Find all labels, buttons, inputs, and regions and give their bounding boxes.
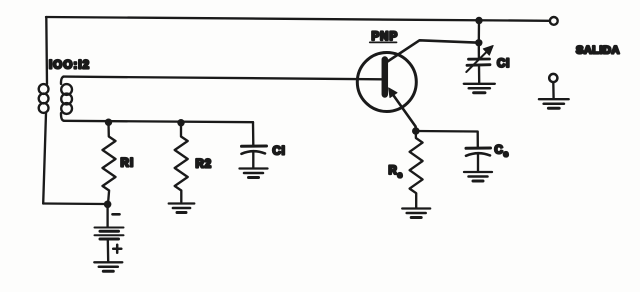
svg-text:CI: CI [273, 146, 286, 158]
transistor Q1 emitter [390, 91, 416, 132]
resistor R1 [103, 122, 116, 204]
variable capacitor C1 [469, 58, 490, 61]
transformer T1 secondary winding [61, 77, 64, 84]
svg-text:RI: RI [121, 158, 135, 170]
node battery top [104, 201, 112, 209]
wire emitter to Ce [416, 131, 478, 147]
svg-text:PNP: PNP [372, 31, 399, 43]
node collector junction [475, 39, 482, 46]
ground under variable C1 [464, 84, 495, 93]
svg-text:R2: R2 [196, 159, 212, 171]
capacitor C1 fixed [252, 122, 255, 145]
resistor R2 [175, 123, 188, 202]
svg-text:e: e [504, 149, 509, 159]
wire left vertical [45, 17, 48, 84]
wire secondary bottom bus [64, 121, 253, 122]
output terminal right lower [549, 74, 557, 82]
battery B1 [106, 204, 108, 226]
label plus [113, 247, 121, 250]
svg-text:IOO:I2: IOO:I2 [49, 60, 90, 72]
svg-text:e: e [398, 170, 403, 180]
svg-text:C: C [495, 145, 503, 157]
transistor Q1 collector [388, 40, 477, 61]
ground under Re [402, 209, 430, 218]
svg-text:R: R [389, 165, 398, 177]
svg-text:SALIDA: SALIDA [576, 45, 620, 57]
resistor Re [410, 131, 423, 208]
transistor Q1 PNP circle [357, 53, 416, 112]
capacitor Ce [466, 147, 491, 150]
ground under output terminal [539, 99, 569, 108]
ground under Ce [464, 172, 492, 181]
wire secondary top to transistor base [64, 77, 382, 80]
node R1 top [105, 119, 112, 126]
node R2 top [177, 119, 184, 126]
node emitter [412, 127, 420, 135]
transformer T1 primary winding [39, 84, 49, 94]
wire bottom left to battery [43, 202, 104, 205]
wire rail to collector node [478, 21, 481, 43]
transistor Q1 base bar [382, 60, 389, 95]
svg-text:CI: CI [497, 58, 510, 70]
label minus [113, 213, 120, 216]
wire top rail [46, 17, 549, 21]
ground under battery [94, 262, 122, 271]
ground under C1 [240, 169, 268, 178]
wire collector node down to variable capacitor [478, 43, 480, 58]
output terminal top right [550, 17, 558, 25]
ground under R2 [169, 204, 195, 213]
node top rail junction [475, 17, 482, 24]
